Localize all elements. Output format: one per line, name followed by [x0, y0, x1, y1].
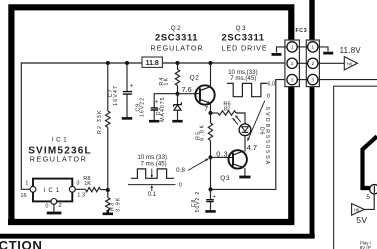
- wire: 7.6 node to Q2 base: [178, 93, 200, 95]
- leader arrow from 0.8 to Q3 base node: [188, 159, 208, 171]
- schematic border box A: [8, 4, 294, 225]
- adjacent section thin border: [334, 86, 377, 249]
- svg-text:3: 3: [312, 77, 315, 82]
- IC1 pin 3 circle: [69, 186, 75, 192]
- ground below Q3 emitter: [244, 175, 246, 177]
- IC1 block outline: [33, 179, 72, 202]
- test point triangle H8 (5V): [352, 204, 365, 216]
- svg-text:5: 5: [366, 194, 370, 201]
- capacitor C8 plates: [206, 200, 214, 202]
- svg-text:1: 1: [25, 181, 28, 187]
- svg-text:3.9K: 3.9K: [116, 197, 122, 213]
- svg-text:0.3: 0.3: [216, 149, 228, 158]
- svg-text:H8: H8: [347, 61, 353, 66]
- transistor Q2 2SC3311: [195, 85, 214, 104]
- svg-text:2: 2: [59, 203, 62, 209]
- svg-text:REGULATOR: REGULATOR: [151, 44, 204, 53]
- wire: IC1 pin2 to ground: [53, 204, 55, 211]
- wire: emitter node to R6: [211, 112, 219, 114]
- waveform down arrow: [151, 169, 153, 178]
- node 7.6 junction: [176, 92, 180, 96]
- wire: rail to R2: [107, 63, 109, 111]
- svg-text:4.7: 4.7: [247, 143, 258, 152]
- IC1 pin 1 circle: [30, 186, 36, 192]
- wire: R2 to R8/R3 node: [107, 127, 109, 190]
- svg-text:2: 2: [312, 61, 315, 66]
- wire: FC3-1 left to ground: [277, 47, 287, 53]
- svg-text:+: +: [155, 99, 159, 105]
- svg-text:7.6: 7.6: [182, 85, 192, 94]
- FC3 left pin 1 circle: [287, 42, 297, 52]
- wire: node to C8: [210, 189, 212, 199]
- ground at FC3-1 left: [272, 53, 282, 56]
- node: rail junction to C7: [125, 61, 129, 65]
- connector FC3 right housing: [306, 40, 319, 87]
- resistor R8 1K: [86, 187, 101, 191]
- FC3 right pin 2 circle: [308, 58, 318, 68]
- svg-text:0.8: 0.8: [176, 167, 185, 174]
- svg-text:0: 0: [267, 94, 270, 100]
- adjacent connector pin circle: [370, 185, 377, 194]
- svg-text:FC3: FC3: [295, 28, 307, 34]
- wire: FC3-3 right to edge: [318, 79, 377, 81]
- test point triangle H8 (11.8V): [344, 57, 357, 70]
- capacitor C7 plates: [123, 92, 132, 95]
- resistor R3 3.9K: [106, 198, 110, 211]
- svg-text:5V: 5V: [356, 215, 367, 225]
- zener diode D5 MA4075: [174, 102, 182, 106]
- wire: R8 to node: [101, 189, 108, 191]
- waveform: Q3 collector pulse train: [227, 83, 267, 96]
- svg-text:Q2: Q2: [190, 74, 200, 81]
- wire: R6 to LED anode: [236, 113, 245, 124]
- svg-text:H8: H8: [354, 207, 360, 212]
- node: rail junction to R4: [176, 61, 180, 65]
- wire: long run to FC3 pin 3: [211, 80, 287, 190]
- voltage label 11.8 box: [142, 57, 162, 67]
- wire: emitter node to R5: [210, 113, 212, 123]
- ground at FC3-1 right: [323, 52, 333, 55]
- svg-text:3: 3: [76, 180, 79, 186]
- svg-text:7: 7: [204, 106, 208, 113]
- outer page-frame border B right edge (upper): [309, 0, 314, 40]
- svg-text:1: 1: [312, 45, 315, 50]
- ground below C9: [153, 110, 155, 121]
- FC3 right pin 1 circle: [308, 42, 318, 52]
- svg-text:+: +: [212, 194, 216, 200]
- svg-text:MA4075: MA4075: [160, 96, 166, 121]
- wire: R4 to 7.6 node: [177, 86, 179, 94]
- wire: Q2 collector to rail: [210, 63, 212, 87]
- svg-text:16: 16: [20, 193, 26, 199]
- svg-text:8V (P: 8V (P: [360, 245, 371, 249]
- svg-text:SVDBR5505SA: SVDBR5505SA: [264, 107, 270, 167]
- wire: FC3 row 1 link: [297, 46, 307, 48]
- wire: rail to C7: [126, 63, 128, 91]
- wire: Q3 base node down: [210, 157, 212, 189]
- svg-text:11.8V: 11.8V: [340, 46, 362, 55]
- waveform: Q3 base pulse train: [131, 169, 174, 178]
- wire: node to R3: [107, 190, 109, 198]
- waveform up arrow: [151, 185, 153, 191]
- wire: 11.8V rail and left branch down to IC1 pin 1: [21, 63, 287, 189]
- svg-text:82: 82: [224, 107, 230, 113]
- LED D6 SVDBR5505SA: [239, 124, 251, 136]
- wire: FC3-2 right to test point: [318, 62, 344, 64]
- FC3 left pin 3 circle: [287, 74, 297, 84]
- svg-text:1K: 1K: [163, 77, 169, 86]
- wire: pin 5 to 5V test point: [364, 194, 374, 210]
- FC3 left pin 2 circle: [287, 58, 297, 68]
- svg-text:1.3: 1.3: [77, 193, 85, 199]
- svg-text:0: 0: [45, 203, 48, 209]
- svg-text:2SC3311: 2SC3311: [155, 32, 198, 43]
- waveform zero line: [128, 184, 176, 186]
- svg-text:1: 1: [291, 45, 294, 50]
- svg-text:7 ms (45): 7 ms (45): [141, 161, 167, 168]
- svg-text:R2 33K: R2 33K: [97, 109, 103, 134]
- wire: 7.6 node to D5: [177, 94, 179, 104]
- wire: rail to R4: [177, 63, 179, 70]
- svg-text:2: 2: [291, 61, 294, 66]
- leader arrow from waveform to 4.7 node: [248, 101, 265, 141]
- wire: FC3-1 right to ground: [318, 47, 328, 51]
- svg-text:0: 0: [179, 183, 182, 189]
- svg-text:6.8K: 6.8K: [200, 123, 206, 141]
- LED emission arrows: [235, 115, 240, 122]
- node: C8 junction: [209, 187, 213, 191]
- capacitor C9 plates: [151, 108, 158, 110]
- wire: Q3 emitter to ground: [244, 168, 246, 175]
- svg-text:IC1: IC1: [44, 188, 63, 194]
- ground below C7: [126, 94, 128, 118]
- ground below D5: [177, 116, 179, 121]
- node: Q2 emitter junction: [209, 111, 213, 115]
- wire: base node to Q3 base: [211, 156, 234, 158]
- FC3 right pin 3 circle: [308, 74, 318, 84]
- wire: Q2 emitter down: [210, 103, 212, 113]
- svg-text:CTION: CTION: [0, 238, 43, 249]
- svg-text:IC1: IC1: [52, 137, 69, 144]
- IC1 pin 2 circle: [51, 199, 57, 205]
- svg-text:REGULATOR: REGULATOR: [30, 154, 88, 163]
- svg-text:2SC3311: 2SC3311: [222, 32, 265, 43]
- svg-text:16V22: 16V22: [140, 97, 146, 117]
- outer page-frame border B right edge (lower) and bottom rule: [0, 87, 315, 237]
- svg-text:+: +: [130, 84, 134, 90]
- connector FC3 left housing: [285, 40, 300, 87]
- wire: FC3 row 3 link: [297, 79, 307, 81]
- resistor R2 33K: [106, 111, 110, 127]
- wire: LED cathode to Q3 collector: [244, 136, 246, 152]
- wire: R5 to Q3 base node: [210, 141, 212, 158]
- wire: FC3 row 2 link: [297, 62, 307, 64]
- wire: D5 to ground: [177, 110, 179, 116]
- ground below IC1 pin 2: [47, 212, 62, 215]
- svg-text:11.8: 11.8: [146, 60, 159, 67]
- svg-text:16V47: 16V47: [113, 85, 119, 106]
- ground below C8: [210, 202, 212, 212]
- node: Q3 base junction: [209, 155, 213, 159]
- wire: 7.6 node to C9: [154, 94, 177, 108]
- adjacent section thick trace: [363, 136, 377, 188]
- transistor Q3 2SC3311: [229, 150, 247, 168]
- svg-text:0.1: 0.1: [148, 191, 157, 198]
- svg-text:6.0: 6.0: [267, 82, 275, 88]
- resistor R4 1K: [175, 70, 179, 86]
- resistor R6 82: [218, 111, 236, 115]
- wire: IC1 pin3 to R8: [75, 188, 85, 190]
- svg-text:7 ms.(45): 7 ms.(45): [230, 75, 256, 82]
- node: R2/R8/R3 junction: [106, 188, 110, 192]
- ground below R3: [103, 210, 113, 214]
- resistor R5 6.8K: [208, 123, 212, 141]
- svg-text:1K: 1K: [84, 181, 91, 187]
- svg-text:LED DRIVE: LED DRIVE: [221, 44, 267, 53]
- node: rail junction to Q2 collector: [209, 61, 213, 65]
- svg-text:Q3: Q3: [220, 175, 230, 182]
- svg-text:3: 3: [291, 77, 294, 82]
- node: rail junction to R2: [106, 61, 110, 65]
- svg-text:50V2.2: 50V2.2: [195, 191, 201, 212]
